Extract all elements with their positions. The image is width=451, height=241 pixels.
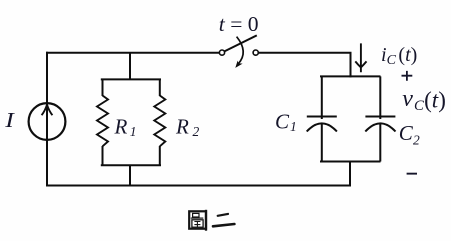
svg-text:2: 2 (193, 124, 200, 139)
svg-text:2: 2 (413, 132, 420, 147)
svg-text:t = 0: t = 0 (219, 12, 259, 36)
svg-text:R: R (175, 115, 189, 139)
svg-text:C: C (275, 109, 290, 133)
svg-text:vC(t): vC(t) (402, 86, 446, 114)
svg-text:I: I (4, 108, 15, 132)
svg-text:1: 1 (130, 124, 137, 139)
svg-text:C: C (399, 121, 414, 145)
svg-text:1: 1 (290, 119, 297, 134)
svg-text:iC(t): iC(t) (381, 44, 417, 68)
svg-text:R: R (114, 115, 128, 139)
